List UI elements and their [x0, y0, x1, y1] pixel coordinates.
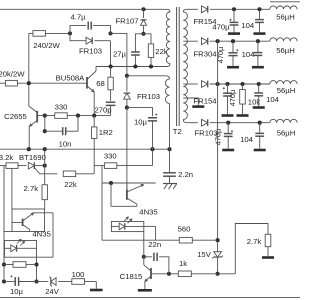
svg-text:T2: T2	[173, 127, 182, 136]
svg-text:560: 560	[178, 224, 191, 233]
svg-text:104: 104	[241, 21, 255, 30]
svg-text:1k: 1k	[179, 259, 187, 268]
svg-text:27µ: 27µ	[113, 49, 127, 58]
svg-text:2.7k: 2.7k	[24, 184, 39, 193]
svg-text:10µ: 10µ	[134, 117, 148, 126]
svg-text:2.7k: 2.7k	[247, 237, 262, 246]
svg-text:FR103: FR103	[137, 92, 160, 101]
svg-text:22k: 22k	[64, 180, 77, 189]
svg-text:20k/2W: 20k/2W	[0, 70, 25, 79]
svg-text:330: 330	[104, 151, 117, 160]
svg-text:330: 330	[55, 102, 68, 111]
svg-text:22k: 22k	[155, 47, 168, 56]
svg-text:4N35: 4N35	[139, 208, 157, 217]
svg-text:10µ: 10µ	[10, 287, 24, 296]
svg-text:104: 104	[240, 135, 254, 144]
svg-text:240/2W: 240/2W	[33, 41, 60, 50]
svg-text:3.2k: 3.2k	[0, 153, 13, 162]
svg-text:22n: 22n	[148, 240, 161, 249]
svg-text:BT1690: BT1690	[19, 153, 46, 162]
svg-text:10n: 10n	[59, 140, 72, 149]
svg-text:470µ: 470µ	[228, 89, 237, 106]
svg-text:56µH: 56µH	[277, 86, 296, 95]
svg-text:104: 104	[266, 95, 280, 104]
svg-text:BU508A: BU508A	[56, 73, 86, 82]
svg-text:56µH: 56µH	[276, 46, 295, 55]
svg-text:24V: 24V	[45, 287, 60, 296]
svg-text:470µ: 470µ	[212, 22, 230, 31]
svg-text:FR107: FR107	[115, 16, 138, 25]
svg-text:15V: 15V	[197, 250, 212, 259]
svg-text:100: 100	[72, 270, 85, 279]
svg-text:4.7µ: 4.7µ	[70, 13, 86, 22]
svg-text:68: 68	[96, 79, 105, 88]
svg-text:1R2: 1R2	[99, 128, 113, 137]
svg-text:FR103: FR103	[79, 46, 102, 55]
svg-text:104: 104	[242, 50, 256, 59]
svg-text:56µH: 56µH	[276, 12, 295, 21]
svg-text:270p: 270p	[94, 105, 111, 114]
svg-text:2.2n: 2.2n	[178, 170, 193, 179]
svg-text:4N35: 4N35	[32, 230, 50, 239]
svg-text:C2655: C2655	[4, 112, 27, 121]
svg-text:C1815: C1815	[120, 272, 143, 281]
svg-text:FR304: FR304	[193, 50, 217, 59]
svg-text:56µH: 56µH	[277, 128, 296, 137]
